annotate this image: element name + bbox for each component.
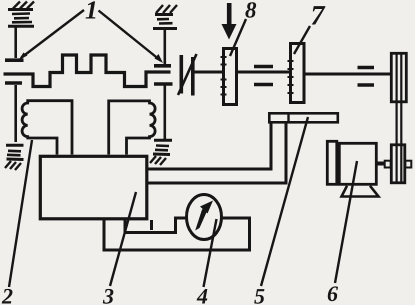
contact K1 lower bar (left) [5, 81, 22, 85]
leader line 6 [335, 161, 357, 283]
clutch slash [178, 54, 197, 95]
contact K2 upper bar (right) [154, 64, 171, 68]
pulley hub stubs [385, 161, 391, 168]
ground spring bottom-left [5, 145, 24, 170]
label 5 [254, 289, 264, 304]
wire duct upper line from block 3 to bar 5 [148, 124, 271, 170]
label 8 [245, 2, 256, 18]
disc 7 scale ticks [288, 61, 294, 93]
meter loop wire with notch [125, 218, 187, 233]
belt lines [396, 54, 398, 183]
label 7 [312, 6, 326, 24]
disc 8 scale ticks [221, 57, 227, 95]
arrow into disc 8 [227, 3, 232, 26]
label 2 [2, 289, 13, 304]
label 6 [328, 286, 338, 301]
leader line 8 [230, 19, 246, 56]
label 4 [197, 289, 208, 303]
leader line 2 [9, 140, 32, 287]
leader line 7 [294, 26, 310, 54]
leader line 3 [110, 192, 136, 286]
meter 4 (galvanometer) [187, 195, 222, 240]
bar 5 divider [287, 113, 289, 124]
clutch left plate [180, 55, 184, 94]
motor 6 body [339, 143, 376, 184]
shaft disc 7 to pulley [305, 73, 391, 76]
spring support top-right [153, 5, 177, 64]
coupling bars between 7 and pulley [358, 66, 375, 70]
contact K1 upper bar (left) [5, 58, 24, 62]
ground spring below right contact [150, 140, 172, 165]
meter needle [195, 201, 213, 231]
toothed armature bar [4, 55, 171, 87]
motor 6 end cap [327, 141, 337, 184]
coil L2 (right electromagnet) [109, 101, 155, 155]
bar 5 (brake shoe) [269, 113, 338, 122]
shaft clutch to disc 8 [195, 71, 223, 74]
contact K2 lower bar (right) [154, 82, 173, 86]
motor shaft [378, 162, 386, 166]
meter loop wire lower [104, 218, 250, 250]
leader line 1 left with arrow [22, 10, 85, 58]
upper pulley [391, 53, 406, 102]
disc 7 (graduated drum) [291, 44, 305, 103]
label 3 [103, 289, 114, 304]
spring support top-left [8, 2, 34, 59]
wire from lower contact to ground spring [14, 85, 17, 142]
leader line 5 [261, 117, 308, 286]
leader line 4 [204, 219, 217, 287]
shaft disc 8 to disc 7 [237, 71, 290, 74]
coupling bars between 8 and 7 [254, 65, 273, 69]
label 1 [86, 1, 96, 18]
leader line 1 right with arrow [99, 11, 161, 61]
coil L1 (left electromagnet) [22, 101, 72, 155]
motor base [342, 186, 379, 197]
stub at block 3 corner [150, 220, 153, 230]
wire duct lower line from block 3 to bar 5 [148, 124, 286, 184]
lower pulley [391, 145, 405, 183]
block 3 (device body) [40, 156, 147, 219]
wire from right contact to ground spring [164, 86, 167, 140]
disc 8 (graduated drum) [224, 49, 237, 105]
clutch right plate [191, 57, 195, 96]
